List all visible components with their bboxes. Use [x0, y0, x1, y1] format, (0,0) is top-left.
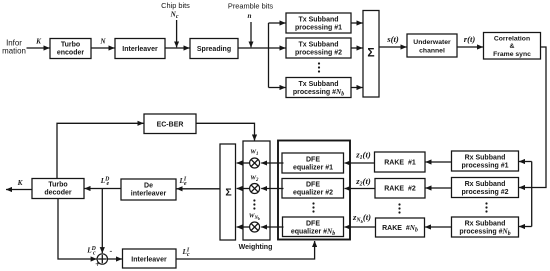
svg-text:Spreading: Spreading [197, 46, 231, 53]
wire: Tx #1 to sum [351, 22, 363, 24]
wire: chip bits arrow down [176, 20, 178, 47]
wire: DFE #Nb to multiplier Nb [261, 226, 283, 228]
wire: interleaver to spreading [165, 47, 190, 49]
wire: Rx #1 to RAKE #1 [426, 161, 452, 163]
wire: branch to Tx subband #Nb [269, 87, 286, 89]
wire: Tx #2 to sum [351, 47, 363, 49]
multiplier Nb [250, 222, 260, 232]
wire: RAKE #2 to DFE #2 with z2(t) [345, 176, 376, 188]
svg-text:r(t): r(t) [464, 34, 476, 44]
block: Underwater channel [407, 34, 457, 57]
svg-text:Tx Subband: Tx Subband [298, 42, 338, 49]
svg-text:Weighting: Weighting [239, 244, 273, 251]
block: RAKE #2 [375, 179, 425, 199]
wire: Interleaver to DFE group with LcI [176, 241, 315, 259]
wire: branch vertical for Tx subbands [268, 23, 270, 88]
block: RAKE #1 [375, 152, 426, 172]
wire: multiplier 1 to sum2 [237, 162, 250, 164]
wire: sum to underwater channel with s(t) [379, 34, 407, 47]
block: Interleaver (bottom) [123, 249, 177, 268]
block: RAKE #Nb [376, 218, 425, 237]
svg-text:mation: mation [2, 47, 26, 56]
svg-text:Rx Subband: Rx Subband [465, 221, 506, 228]
wire: underwater channel to correlation with r(t) [457, 34, 483, 47]
dots: between RAKE boxes [398, 203, 400, 213]
svg-text:interleaver: interleaver [131, 191, 167, 198]
block: EC-BER [144, 114, 196, 134]
wire: multiplier 2 to sum2 [237, 188, 250, 190]
svg-text:n: n [248, 12, 252, 20]
svg-text:DFE: DFE [306, 157, 320, 164]
svg-text:EC-BER: EC-BER [157, 122, 184, 129]
svg-text:Chip bits: Chip bits [161, 1, 190, 10]
wire: Turbo decoder up to EC-BER [57, 123, 144, 178]
block: Correlation & Frame sync [484, 33, 541, 60]
svg-text:Σ: Σ [367, 46, 374, 60]
block: DFE equalizer #1 [282, 153, 344, 173]
block: summation (weighting) [220, 144, 236, 240]
block: Tx Subband processing #Nb [286, 78, 351, 98]
block: Spreading [190, 39, 238, 59]
svg-text:processing #2: processing #2 [295, 50, 342, 57]
block: Rx Subband processing #1 [452, 151, 519, 171]
label: W2 [250, 175, 259, 183]
svg-text:&: & [510, 43, 515, 50]
block: De interleaver [121, 179, 176, 200]
label: Chip bits Nc [161, 1, 190, 20]
svg-text:De: De [144, 183, 153, 190]
wire: RAKE #1 to DFE #1 with z1(t) [345, 150, 375, 163]
svg-text:equalizer #1: equalizer #1 [293, 165, 333, 172]
label: Weighting [239, 244, 273, 251]
svg-text:processing #1: processing #1 [461, 163, 508, 170]
svg-text:s(t): s(t) [386, 34, 399, 44]
block: Interleaver (top) [115, 39, 165, 59]
svg-text:z1(t): z1(t) [355, 150, 371, 162]
wire: multiplier Nb to sum2 [237, 226, 250, 228]
block: Tx Subband processing #2 [286, 38, 351, 58]
svg-text:Turbo: Turbo [61, 42, 80, 49]
svg-text:Interleaver: Interleaver [131, 257, 167, 264]
block: Rx Subband processing #Nb [452, 217, 519, 237]
svg-text:Interleaver: Interleaver [122, 46, 158, 53]
wire: RAKE #Nb to DFE #Nb with zNb(t) [345, 212, 376, 227]
wire: Rx #2 to RAKE #2 [426, 187, 452, 189]
label: WNb [249, 213, 260, 221]
svg-text:DFE: DFE [306, 221, 320, 228]
svg-text:Tx Subband: Tx Subband [298, 17, 338, 24]
multiplier 2 [250, 184, 260, 194]
svg-text:encoder: encoder [57, 50, 85, 57]
wire: information to turbo encoder with K label [27, 38, 50, 49]
svg-text:Correlation: Correlation [494, 36, 530, 43]
svg-text:Rx Subband: Rx Subband [465, 181, 506, 188]
wire: correlation down the right side to Rx #2 [519, 47, 546, 188]
svg-text:processing #1: processing #1 [295, 25, 342, 32]
svg-text:equalizer #2: equalizer #2 [293, 190, 333, 197]
wire: right branch vertical [531, 162, 533, 227]
block: Turbo decoder [32, 179, 84, 199]
dots: between DFE boxes [312, 202, 314, 212]
svg-text:processing #2: processing #2 [461, 189, 508, 196]
wire: DFE #2 to multiplier 2 [261, 188, 283, 190]
wire: preamble bits arrow down [250, 22, 252, 47]
wire: De interleaver to Turbo decoder with LeD [85, 177, 122, 189]
svg-text:DFE: DFE [306, 182, 320, 189]
wire: Tx #Nb to sum [351, 87, 363, 89]
dots: between multipliers [253, 199, 255, 209]
wire: branch to Rx #Nb [519, 226, 532, 228]
block: DFE equalizer #Nb [283, 217, 344, 237]
wire: sum2 to De interleaver with LeI [177, 177, 221, 189]
wire: EC-BER to Weighting box [196, 123, 255, 140]
wire: DFE #1 to multiplier 1 [261, 162, 283, 164]
wire: turbo encoder to interleaver with N label [91, 38, 115, 49]
svg-text:Rx Subband: Rx Subband [465, 155, 506, 162]
block: Weighting box [243, 141, 270, 240]
svg-text:Preamble bits: Preamble bits [228, 2, 273, 11]
svg-text:-: - [109, 247, 112, 256]
svg-text:N: N [99, 38, 106, 46]
label: Preamble bits n [228, 2, 273, 21]
svg-text:Frame sync: Frame sync [493, 51, 531, 58]
svg-text:RAKE #2: RAKE #2 [384, 186, 416, 193]
wire: LeD junction down to adder with minus [86, 189, 112, 257]
wire: Rx #Nb to RAKE #Nb [425, 226, 452, 228]
label: W1 [250, 149, 258, 157]
wire: Turbo decoder K output [6, 179, 32, 190]
block: DFE group outer box [278, 141, 350, 240]
block: Tx Subband processing #1 [286, 13, 351, 33]
svg-text:RAKE #1: RAKE #1 [384, 160, 416, 167]
svg-text:Tx Subband: Tx Subband [298, 81, 338, 88]
block: DFE equalizer #2 [282, 179, 344, 199]
svg-text:Σ: Σ [225, 187, 231, 199]
adder node [97, 254, 107, 264]
block: Rx Subband processing #2 [452, 178, 519, 198]
svg-text:channel: channel [419, 48, 445, 55]
svg-text:Turbo: Turbo [48, 182, 67, 189]
svg-text:decoder: decoder [44, 190, 72, 197]
multiplier 1 [250, 158, 260, 168]
wire: adder to Interleaver (bottom) [108, 258, 123, 260]
block: Turbo encoder [50, 39, 91, 59]
wire: branch to Tx subband #1 [269, 22, 286, 24]
svg-text:z2(t): z2(t) [355, 176, 371, 188]
wire: branch to Rx #1 [519, 161, 532, 163]
label: Information input [2, 39, 26, 56]
wire: spreading to Tx subband #2 [238, 47, 286, 49]
dots: between Rx subband boxes [485, 202, 487, 212]
block: summation (top) [363, 11, 379, 98]
svg-text:Underwater: Underwater [413, 39, 451, 46]
wire: Turbo decoder down to adder with plus [58, 199, 100, 269]
dots: between Tx subband boxes [318, 62, 320, 72]
